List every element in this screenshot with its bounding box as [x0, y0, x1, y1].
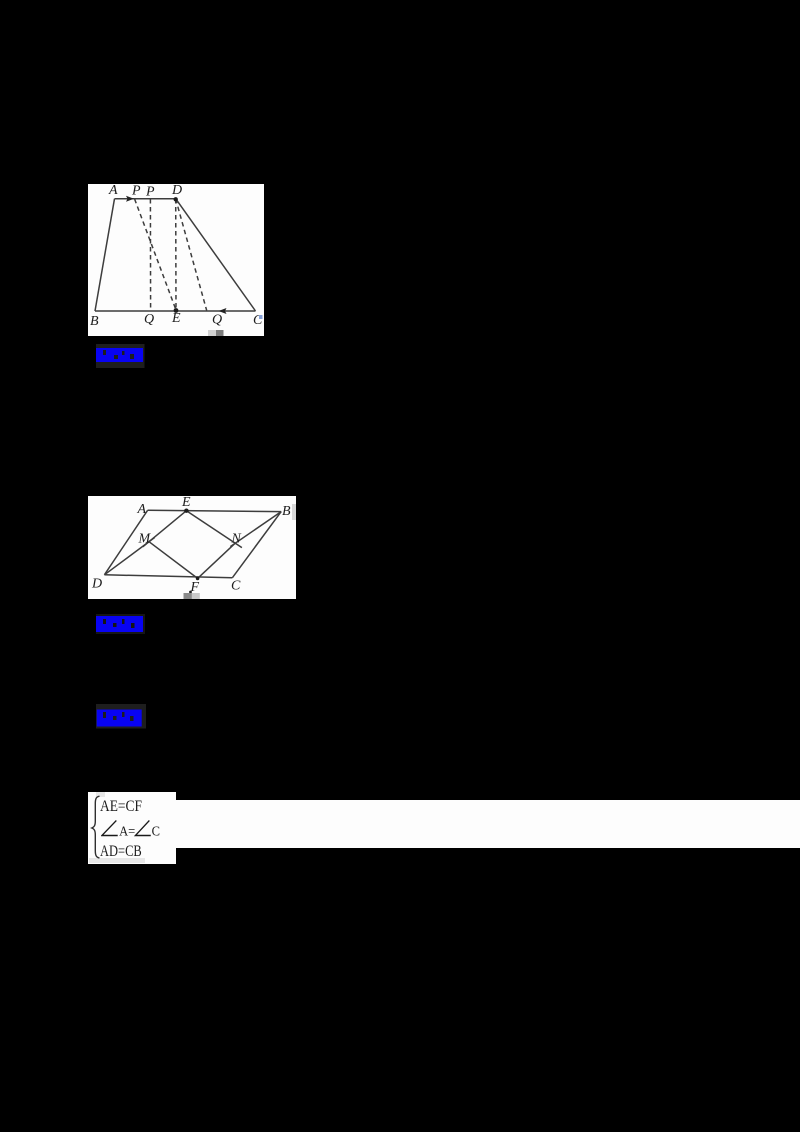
wire: trapezoid top edge A-D: [115, 198, 176, 200]
arrowhead on top edge pointing right: [126, 196, 134, 202]
svg-text:P: P: [145, 185, 155, 200]
svg-text:M: M: [138, 532, 152, 547]
svg-text:C: C: [152, 823, 160, 838]
svg-text:E: E: [181, 495, 191, 510]
figure 1: trapezoid ABCD with moving points P,Q: [88, 184, 264, 336]
svg-text:A=: A=: [119, 823, 135, 838]
artifact: light gray patch top-left of equation panel: [96, 792, 105, 797]
svg-text:P: P: [131, 184, 141, 199]
dashed line D-Q2: [176, 199, 207, 311]
dashed line P2-Q1: [149, 199, 151, 310]
node dot below F: [189, 591, 192, 594]
svg-text:D: D: [171, 184, 182, 198]
wire: parallelogram top edge A-B: [148, 510, 282, 511]
answer label 2 (blue highlighted): [94, 613, 146, 635]
artifact: light gray strip at bottom of equation panel: [89, 858, 145, 863]
arrowhead on bottom edge pointing left: [219, 308, 227, 314]
svg-text:C: C: [231, 579, 241, 594]
dashed line P1-E: [135, 199, 176, 310]
figure 2: parallelogram ABCD with rhombus EMFN: [85, 493, 297, 601]
svg-text:F: F: [190, 580, 200, 595]
answer label 1 (blue highlighted): [94, 343, 146, 369]
equation block: white band to right edge: [176, 800, 800, 848]
svg-text:A: A: [108, 184, 118, 198]
svg-text:B: B: [282, 504, 291, 519]
svg-text:D: D: [91, 577, 102, 592]
wire: parallelogram right edge B-C: [232, 512, 281, 578]
segment B-N (overshoot past N): [230, 512, 281, 547]
answer label 3 (blue highlighted): [94, 703, 146, 729]
equation block: white panel: [88, 792, 176, 864]
svg-text:E: E: [171, 311, 181, 326]
artifact: light-blue smudge near C: [259, 315, 263, 319]
svg-text:Q: Q: [212, 313, 222, 328]
artifact: two-tone gray square under Q2: [208, 330, 216, 336]
system brace {: [90, 795, 102, 860]
node dot at D: [174, 197, 178, 201]
dashed line D-E: [175, 199, 177, 310]
node dot at E: [174, 308, 179, 313]
node dot at E: [184, 509, 188, 513]
svg-text:A: A: [137, 502, 147, 517]
svg-text:N: N: [231, 532, 242, 547]
angle symbol 1: [102, 821, 118, 836]
rhombus side N-E (overshoot past N): [186, 511, 242, 548]
artifact: gray bar right of B: [292, 504, 296, 520]
svg-text:Q: Q: [144, 312, 154, 327]
equation line 3: AD=CB: [100, 843, 162, 859]
svg-text:B: B: [90, 314, 99, 329]
rhombus side E-M (overshoot past M): [143, 511, 187, 547]
wire: trapezoid bottom edge B-C: [95, 310, 256, 312]
wire: parallelogram left edge A-D: [104, 510, 147, 575]
angle symbol 2: [135, 821, 150, 836]
equation line 2: angle A = angle C: [101, 819, 185, 838]
wire: parallelogram bottom edge D-C: [104, 575, 232, 578]
wire: trapezoid right edge D-C: [176, 199, 256, 311]
equation line 1: AE=CF: [100, 798, 167, 814]
rhombus side M-F: [149, 542, 198, 579]
segment D-M (overshoot past M): [104, 538, 154, 575]
wire: trapezoid left edge A-B: [95, 199, 115, 311]
rhombus side F-N: [198, 543, 236, 578]
node dot at F: [196, 577, 200, 581]
artifact: two-tone gray square under F: [184, 593, 192, 599]
